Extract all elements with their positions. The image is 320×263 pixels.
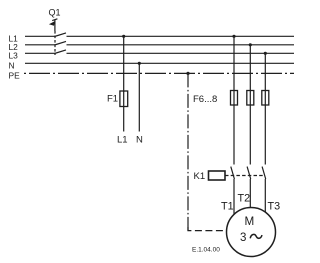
wire: fuse F8 to contactor contact 3 (264, 105, 266, 165)
wire: L1 tap down to fuse F1 (123, 36, 125, 92)
wire L1 bus left segment (25, 35, 55, 37)
wire: PE branch horizontal to motor frame (dashed) (188, 227, 227, 231)
svg-text:F1: F1 (107, 93, 118, 104)
wire: fuse F7 to contactor contact 2 (249, 105, 251, 165)
contactor K1 main contact 3 blade (262, 167, 266, 179)
svg-text:T3: T3 (268, 201, 281, 213)
wire PE bus (dash-dot) (24, 72, 294, 74)
switch Q1 pole 1 blade (55, 33, 67, 37)
svg-text:PE: PE (9, 70, 21, 80)
svg-text:T2: T2 (238, 192, 251, 204)
switch Q1 manual actuator (49, 19, 58, 31)
wire: contact 3 to motor terminal T3 (264, 179, 266, 213)
wire: fuse F6 to contactor contact 1 (233, 105, 235, 165)
fuse F7 body (247, 91, 254, 106)
junction dot: L1 to fuse F6 branch (232, 35, 235, 38)
wire: L1 tap down to fuse F6 (233, 36, 235, 90)
wire L1 bus right segment (67, 35, 295, 37)
fuse F1 body (120, 91, 128, 107)
svg-text:Q1: Q1 (49, 8, 61, 18)
junction dot: L2 to fuse F7 branch (249, 43, 252, 46)
wire: contact 2 to motor terminal T2 (249, 179, 251, 208)
svg-text:3: 3 (240, 232, 246, 244)
wire: N tap down to terminal N (138, 63, 140, 131)
svg-text:K1: K1 (194, 171, 206, 182)
wire L3 bus right segment (67, 52, 295, 54)
svg-text:F6...8: F6...8 (193, 94, 217, 105)
switch Q1 pole 3 blade (55, 50, 67, 54)
wire: contact 1 to motor terminal T1 (233, 179, 235, 214)
wire L3 bus left segment (25, 52, 55, 54)
svg-text:L1: L1 (117, 135, 128, 146)
switch Q1 pole 2 blade (55, 41, 67, 45)
junction dot: L1 tap to fuse F1 (122, 35, 125, 38)
wire N bus (25, 62, 294, 64)
wire L2 bus left segment (25, 44, 55, 46)
contactor K1 operator box (209, 171, 226, 180)
wire: PE branch vertical (dash-dot) (187, 73, 189, 230)
motor AC tilde (250, 234, 262, 238)
switch Q1 mechanical linkage (dashed) (54, 31, 56, 55)
fuse F6 body (231, 91, 238, 106)
svg-text:N: N (136, 135, 143, 146)
contactor K1 main contact 2 blade (247, 167, 251, 179)
fuse F8 body (262, 91, 269, 106)
junction dot: PE tap to motor frame (186, 72, 189, 75)
wire L2 bus right segment (67, 44, 295, 46)
junction dot: L3 to fuse F8 branch (264, 52, 267, 55)
svg-text:E.1.04.00: E.1.04.00 (192, 246, 220, 253)
wire: L3 tap down to fuse F8 (264, 53, 266, 90)
svg-text:T1: T1 (221, 201, 234, 213)
svg-text:M: M (245, 215, 255, 228)
wire: L2 tap down to fuse F7 (249, 45, 251, 91)
junction dot: N tap (138, 62, 141, 65)
wire: fuse F1 to terminal L1 (123, 107, 125, 132)
svg-text:N: N (9, 60, 15, 70)
contactor K1 linkage (dashed) (225, 175, 264, 177)
contactor K1 main contact 1 blade (231, 167, 235, 179)
motor M1 circle (227, 208, 276, 257)
svg-text:L3: L3 (9, 50, 19, 60)
